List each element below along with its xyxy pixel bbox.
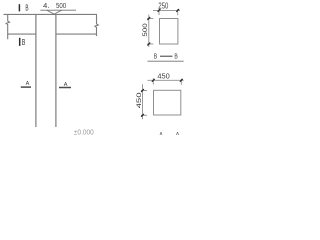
B-B left dim bottom extension: [147, 43, 153, 45]
A-A left dim bottom tick: [141, 114, 144, 117]
svg-text:A: A: [26, 81, 30, 87]
svg-text:450: 450: [157, 71, 169, 80]
B-B top dim left extension: [158, 9, 160, 16]
section mark B lower tick: [19, 38, 21, 46]
right break line with zigzag: [95, 14, 98, 36]
B-B left dim top tick: [147, 17, 150, 20]
beam bottom line right of column: [56, 33, 97, 35]
B-B left dim bottom tick: [147, 43, 150, 46]
section mark A left underline: [21, 86, 31, 88]
A-A top dim left extension: [152, 78, 154, 84]
B-B top dim right tick: [176, 9, 179, 12]
A-A left dim top tick: [141, 89, 144, 92]
svg-text:±0.000: ±0.000: [74, 129, 94, 135]
beam bottom line left of column: [8, 33, 36, 35]
svg-text:B: B: [154, 54, 158, 61]
A-A section rectangle: [154, 90, 181, 115]
svg-text:B: B: [25, 3, 28, 12]
section mark B upper tick: [18, 4, 20, 11]
svg-text:B: B: [22, 38, 26, 47]
svg-text:250: 250: [158, 1, 168, 11]
A-A top dim right extension: [180, 79, 182, 85]
A-A top dim left tick: [152, 79, 155, 82]
svg-text:A: A: [176, 132, 180, 135]
B-B section rectangle: [160, 19, 178, 45]
B-B top dim left tick: [158, 9, 161, 12]
left break line with zigzag: [6, 14, 9, 39]
A-A left dim top extension: [141, 90, 147, 92]
A-A left dim bottom extension: [141, 114, 147, 116]
B-B left dimension line: [148, 15, 150, 47]
label A-A dash (cut off): [166, 135, 175, 137]
section mark A right underline: [59, 87, 71, 89]
svg-text:B: B: [174, 54, 178, 61]
svg-text:A: A: [159, 132, 163, 135]
A-A left dimension line: [142, 84, 144, 119]
label B-B dash: [160, 55, 173, 57]
svg-text:4.: 4.: [43, 1, 50, 10]
label B-B underline: [148, 60, 184, 62]
beam top line: [4, 13, 98, 15]
A-A top dim right tick: [180, 79, 183, 82]
column right edge: [55, 14, 57, 127]
svg-text:450: 450: [136, 92, 143, 108]
B-B left dim top extension: [147, 18, 153, 20]
level mark line: [40, 9, 76, 11]
column left edge: [35, 14, 37, 127]
B-B top dimension line: [153, 9, 180, 11]
svg-text:500: 500: [142, 23, 149, 37]
svg-text:500: 500: [56, 1, 66, 10]
B-B top dim right extension: [177, 9, 179, 15]
level mark triangle: [47, 10, 61, 14]
A-A top dimension line: [148, 79, 184, 81]
